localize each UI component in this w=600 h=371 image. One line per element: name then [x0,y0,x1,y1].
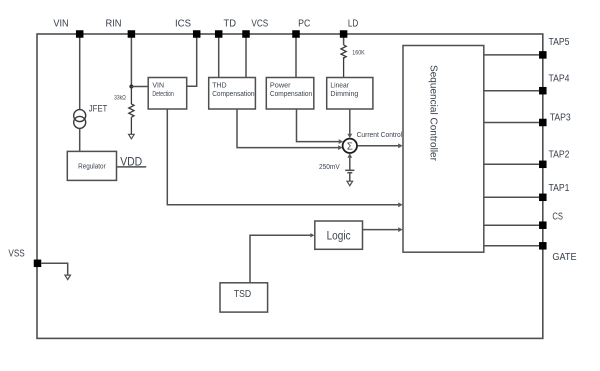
pin RIN [128,30,135,38]
svg-text:TAP3: TAP3 [550,112,571,123]
wire TAP1 [484,196,539,198]
wire TAP5 [484,54,539,56]
svg-text:GATE: GATE [552,252,577,263]
pin ICS [193,30,201,38]
wire VIN pin to JFET [79,37,81,110]
wire TSD to Logic [250,235,312,282]
wire summing node output to Sequencial Controller [358,145,401,147]
pin TAP5 [539,51,547,59]
svg-text:Σ: Σ [347,142,353,153]
node junction dot [129,85,133,89]
wire LD pin to resistor [343,37,345,45]
Linear Dimming block [327,78,373,110]
wire GATE [484,245,539,247]
wire VIN Detection output to Sequencial Controller [167,109,400,205]
wire VSS to ground [41,263,67,275]
svg-text:Power: Power [270,83,291,90]
ground arrow at VSS [65,275,71,280]
wire TD pin to THD block [218,37,220,78]
pin GATE [539,242,547,250]
Power Compensation block [266,78,314,110]
pin LD [340,30,348,38]
pin TAP2 [539,161,547,169]
svg-text:TSD: TSD [234,289,251,300]
wire VDD output [117,166,147,168]
svg-text:VSS: VSS [8,248,25,259]
wire PC pin to Power Compensation block [295,37,297,78]
svg-text:ICS: ICS [175,19,191,30]
svg-text:250mV: 250mV [319,164,340,171]
resistor R2 160K [341,45,346,78]
ground arrow below 250mV [347,181,353,186]
svg-text:33kΩ: 33kΩ [114,95,126,102]
VIN Detection block [148,78,187,110]
summing node U2 sigma [343,139,357,153]
svg-text:TAP1: TAP1 [549,183,570,194]
wire THD Compensation output to summing node [237,109,340,148]
svg-text:THD: THD [212,83,226,90]
wire junction to VIN Detection [131,86,148,88]
svg-text:TAP2: TAP2 [549,150,570,161]
svg-text:RIN: RIN [105,19,121,30]
svg-text:Sequencial Controller: Sequencial Controller [428,65,439,162]
pin VCS [242,30,250,38]
wire Linear Dimming output to summing node [349,109,351,136]
svg-text:Compensation: Compensation [270,91,312,98]
ground arrow below R1 [129,134,135,139]
wire Power Compensation output to summing node [297,109,341,142]
pin TD [215,30,223,38]
svg-text:TD: TD [224,19,237,30]
wire VCS pin to THD block [245,37,247,78]
svg-text:LD: LD [348,19,358,30]
pin VIN [76,30,84,38]
wire Logic to Sequencial Controller [363,229,401,231]
svg-text:Logic: Logic [327,230,351,242]
svg-text:TAP5: TAP5 [549,37,570,48]
svg-text:JFET: JFET [89,104,108,114]
svg-text:Detection: Detection [152,91,173,98]
pin TAP1 [539,194,547,202]
wire TAP4 [484,90,539,92]
svg-text:160K: 160K [352,50,365,57]
Sequencial Controller block U1 [403,46,484,253]
THD Compensation block [209,78,256,110]
pin TAP3 [539,119,547,127]
svg-text:Current Control: Current Control [357,132,403,139]
svg-text:Regulator: Regulator [78,163,106,170]
svg-text:VIN: VIN [53,19,68,30]
svg-text:Dimming: Dimming [330,91,358,98]
wire ICS pin to VIN Detection right side [187,37,197,86]
resistor R1 33kOhm [129,87,134,135]
JFET current source Q1 (two overlapping circles) [74,110,86,129]
pin PC [292,30,300,38]
svg-text:VCS: VCS [251,19,268,30]
TSD block [220,283,268,312]
regulator block [67,151,116,180]
pin VSS [34,260,42,268]
wire CS [484,224,539,226]
outer boundary box [37,34,543,338]
Logic block [315,221,363,249]
svg-text:Compensation: Compensation [212,91,254,98]
svg-text:Linear: Linear [330,83,349,90]
wire JFET to Regulator [79,128,81,151]
svg-text:CS: CS [552,212,563,223]
voltage source V1 250mV (battery) [345,170,354,181]
pin TAP4 [539,87,547,95]
svg-text:PC: PC [298,19,310,30]
wire TAP3 [484,122,539,124]
wire 250mV source to summing node [349,156,351,171]
svg-text:VIN: VIN [152,83,164,90]
wire RIN pin down to junction [130,37,132,87]
pin CS [539,221,547,229]
svg-text:TAP4: TAP4 [549,74,570,85]
wire TAP2 [484,163,539,165]
